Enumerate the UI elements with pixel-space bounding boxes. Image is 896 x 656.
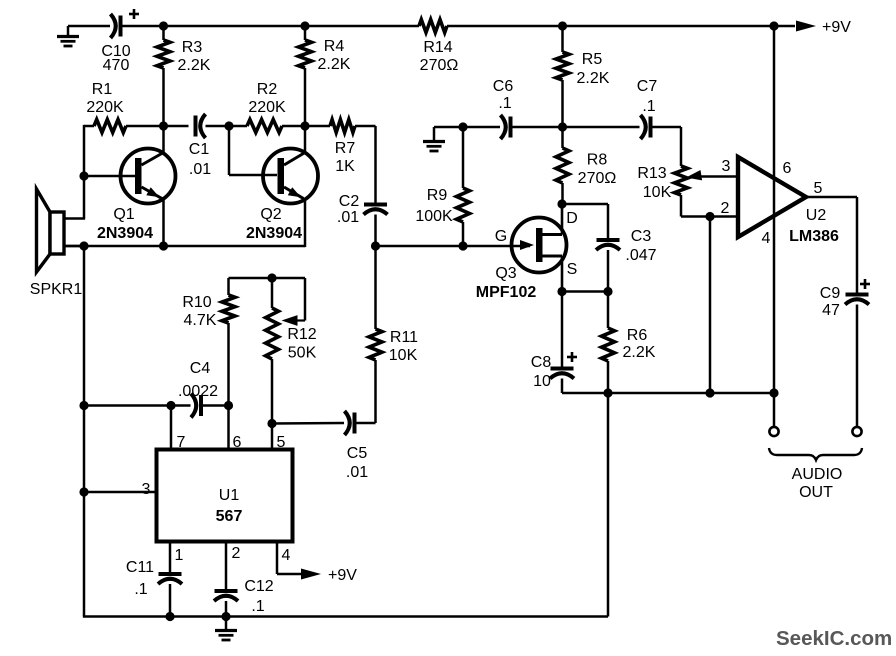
node Q1 base junction [79,171,88,180]
+9V arrow top right [796,19,851,36]
wire long vertical right [607,393,610,617]
pin 4 label [762,230,771,247]
svg-text:C1: C1 [189,141,210,158]
capacitor C8 [531,292,577,394]
svg-text:G: G [495,228,507,245]
svg-text:2.2K: 2.2K [577,70,610,87]
capacitor C6 [493,78,563,139]
svg-text:3: 3 [142,481,151,498]
node R5/R8/C6/C7 [558,122,567,131]
ground bottom [215,617,237,641]
transistor Q2 [246,149,318,243]
resistor R11 [369,246,418,423]
speaker SPKR1 [30,189,83,298]
potentiometer R13 [637,127,687,217]
transistor Q3 [476,204,578,301]
svg-text:MPF102: MPF102 [476,284,537,301]
svg-text:R3: R3 [182,39,203,56]
node R4 top [300,21,309,30]
svg-text:2.2K: 2.2K [178,57,211,74]
node R2/R4/R7/Q2 collector [300,121,309,130]
svg-text:.01: .01 [337,209,359,226]
svg-text:+9V: +9V [328,567,357,584]
terminal jack right [852,427,861,436]
svg-text:C6: C6 [493,78,514,95]
capacitor C7 [563,78,682,139]
resistor R4 [299,26,351,126]
svg-text:10K: 10K [643,184,672,201]
resistor R6 [602,292,656,394]
svg-text:220K: 220K [248,99,286,116]
wire Q2 base [229,126,277,175]
terminal jack left [769,427,778,436]
svg-text:1: 1 [175,547,184,564]
wire U1 pin4 [277,542,304,575]
svg-text:220K: 220K [86,99,124,116]
svg-text:R9: R9 [427,187,448,204]
wire ground to C6 [434,126,500,129]
transistor Q1 [97,149,176,243]
wire R13 wiper to pin 3 [686,170,738,180]
svg-text:470: 470 [103,57,130,74]
resistor R5 [556,26,610,127]
wire U2 output pin 5 [806,197,857,295]
svg-text:5: 5 [814,180,823,197]
node pin2 wire bottom [705,388,714,397]
wire bottom rail [83,615,608,618]
capacitor C3 [596,204,657,292]
resistor R2 [229,81,305,133]
node R6 bottom [603,388,612,397]
wire U1 pin2 [226,542,241,591]
svg-text:R1: R1 [92,81,113,98]
wire U1 pin1 [170,542,184,574]
capacitor C9 [820,279,870,427]
svg-text:C7: C7 [637,78,658,95]
wire R1 to node [126,125,164,128]
capacitor C4 [178,360,229,418]
resistor R1 [86,81,126,133]
svg-text:Q3: Q3 [495,265,516,282]
node R5 top [558,21,567,30]
svg-text:Q2: Q2 [260,206,281,223]
wire U1 pin5 [272,424,286,452]
label AUDIO OUT [792,466,843,501]
node R9 bottom [458,241,467,250]
wire U1 pin3 [84,481,157,498]
node C4 row left [79,401,88,410]
capacitor C5 [272,411,376,481]
wire U2 pin6-pin4 vertical [773,26,776,393]
svg-text:R12: R12 [287,326,316,343]
wire emitter rail [64,245,305,248]
capacitor C10 [101,9,139,74]
node Q1 emitter rail [159,241,168,250]
pin 6 label [783,160,792,177]
wire R12 wiper [282,278,306,326]
potentiometer R12 [266,278,317,424]
brace audio out [769,448,862,460]
svg-text:.1: .1 [251,598,264,615]
svg-text:10: 10 [533,373,551,390]
svg-text:R13: R13 [637,165,666,182]
watermark SeekIC.com [776,627,892,650]
wire R10-R12 top [229,277,306,280]
node R9 top [458,122,467,131]
svg-text:.01: .01 [346,464,368,481]
svg-text:2N3904: 2N3904 [246,225,302,242]
svg-text:SPKR1: SPKR1 [30,281,83,298]
resistor R7 [305,120,376,176]
node Q3 drain [557,199,566,208]
wire U1 pin6 [229,406,242,452]
svg-text:2: 2 [721,200,730,217]
svg-text:567: 567 [216,508,243,525]
node R12 top [267,273,276,282]
node pin 2 junction [705,212,714,221]
node C11 bottom [165,612,174,621]
wire R1 left corner [84,125,94,219]
svg-text:OUT: OUT [799,484,833,501]
+9V arrow bottom [301,567,357,584]
svg-text:.047: .047 [625,247,656,264]
pin 5 label [814,180,823,197]
svg-text:R14: R14 [423,39,452,56]
svg-text:C9: C9 [820,285,841,302]
op-amp U2 [738,157,839,245]
node R3 top [159,21,168,30]
wire pin 2 down [709,217,712,394]
wire pin4 to jack [773,393,776,427]
svg-text:3: 3 [722,158,731,175]
capacitor C12 [214,578,274,617]
ground mid (C6 left) [423,127,445,151]
svg-text:47: 47 [822,302,840,319]
svg-text:4: 4 [282,547,291,564]
svg-text:.1: .1 [642,98,655,115]
resistor R9 [415,127,469,246]
svg-text:R10: R10 [182,294,211,311]
svg-text:R5: R5 [582,51,603,68]
IC U1 567 [157,450,293,542]
pin 3 label [722,158,731,175]
svg-text:.0022: .0022 [178,383,218,400]
svg-text:10K: 10K [389,347,418,364]
svg-text:S: S [567,261,578,278]
svg-text:C2: C2 [339,193,360,210]
wire Q1 base [84,175,135,178]
svg-text:LM386: LM386 [789,228,839,245]
wire speaker bottom terminal [64,245,84,248]
pin 2 label [721,200,730,217]
svg-text:Q1: Q1 [113,206,134,223]
wire drain to C3 [562,203,608,206]
resistor R14 [419,20,458,75]
capacitor C11 [126,559,182,617]
svg-text:R2: R2 [257,81,278,98]
node R1/R3/C1/Q1 collector [159,121,168,130]
svg-text:R7: R7 [335,140,356,157]
svg-text:R11: R11 [390,329,418,346]
svg-text:4: 4 [762,230,771,247]
svg-text:100K: 100K [415,208,453,225]
svg-text:.01: .01 [189,161,211,178]
capacitor C2 [337,126,388,246]
wire Q1 collector [162,126,165,153]
svg-text:+9V: +9V [822,19,851,36]
node R12 bottom / pin5 / C5 [267,419,276,428]
svg-text:.1: .1 [498,95,511,112]
svg-text:2N3904: 2N3904 [97,225,153,242]
node C4 left / pin7 [166,401,175,410]
wire left vertical [83,246,86,617]
svg-text:C12: C12 [244,578,273,595]
wire audio out rail [562,392,774,395]
wire top rail right [447,25,795,28]
svg-text:C11: C11 [126,559,154,576]
svg-text:R4: R4 [324,38,345,55]
svg-text:2.2K: 2.2K [318,56,351,73]
svg-text:U1: U1 [219,487,240,504]
resistor R8 [556,127,616,204]
svg-text:1K: 1K [335,158,355,175]
resistor R3 [157,26,211,126]
svg-text:270Ω: 270Ω [420,57,459,74]
wire Q2 collector [304,126,307,153]
wire Q1 emitter [162,199,165,247]
svg-text:4.7K: 4.7K [184,312,217,329]
svg-text:6: 6 [783,160,792,177]
node audio rail / pin4 [769,388,778,397]
node U2 pin6 rail [769,21,778,30]
wire gate rail [376,245,531,248]
node C4 right / R10 / pin6 [224,401,233,410]
node speaker bottom / left vertical [79,241,88,250]
node source rail right [603,287,612,296]
svg-text:R8: R8 [587,152,608,169]
svg-text:50K: 50K [288,345,317,362]
svg-text:.1: .1 [134,581,147,598]
svg-text:SeekIC.com: SeekIC.com [776,627,892,650]
wire source rail [562,290,608,293]
node U1 pin3 junction [79,487,88,496]
node C1/R2/Q2 base [224,121,233,130]
svg-text:C3: C3 [631,228,652,245]
wire C4 row [84,404,191,407]
svg-text:U2: U2 [806,207,827,224]
wire U1 pin7 [171,406,186,452]
svg-text:C5: C5 [347,445,368,462]
svg-text:C8: C8 [531,354,552,371]
resistor R10 [182,278,235,406]
node source rail left [557,287,566,296]
svg-text:C4: C4 [190,360,211,377]
svg-text:AUDIO: AUDIO [792,466,843,483]
node C12 bottom / ground [221,612,230,621]
wire top rail left [68,25,110,28]
wire top rail mid [121,25,420,28]
svg-text:270Ω: 270Ω [578,170,617,187]
ground top-left [57,26,79,46]
capacitor C1 [164,114,230,178]
wire R13 bottom to pin 2 [681,215,738,218]
svg-text:R6: R6 [627,327,648,344]
node C2 bottom / gate rail [371,241,380,250]
svg-text:2.2K: 2.2K [623,344,656,361]
wire speaker top terminal [64,217,85,220]
svg-text:2: 2 [232,545,241,562]
wire Q2 emitter [304,199,307,248]
svg-text:D: D [566,210,578,227]
